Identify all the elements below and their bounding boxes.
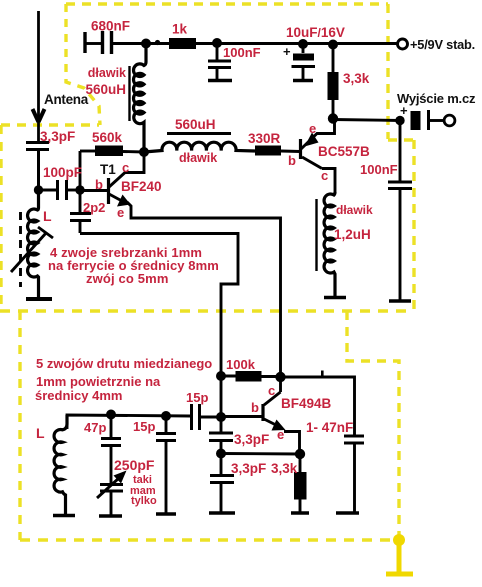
choke 1,2uH [324,192,346,298]
L core dashed line [19,212,22,287]
resistor 330R [255,146,300,156]
wire emitter T1 [127,202,281,376]
svg-text:+5/9V stab.: +5/9V stab. [410,37,475,52]
node divider [216,449,226,459]
resistor 3,3k collector [328,45,339,119]
svg-text:5 zwojów drutu miedzianego: 5 zwojów drutu miedzianego [36,356,212,371]
node tank/base [216,412,226,422]
node collector T1 [139,147,149,157]
svg-text:Wyjście m.cz: Wyjście m.cz [397,91,476,106]
svg-text:3,3k: 3,3k [343,71,370,86]
capacitor 680nF [85,31,146,54]
node output [395,116,404,125]
wire emitter BF494B [284,432,300,455]
svg-text:BF240: BF240 [121,179,162,194]
shield box 2 (antenna coil) top edge [1,123,99,126]
choke 1,2uH core line [315,199,317,271]
capacitor 3,3pF upper [209,433,233,453]
svg-text:b: b [288,153,296,168]
svg-text:c: c [321,168,328,183]
svg-text:b: b [95,177,103,192]
resistor 3,3k emitter [291,454,309,513]
choke 560uH vertical [134,44,146,153]
svg-text:1,2uH: 1,2uH [334,227,371,242]
svg-text:15p: 15p [133,419,155,434]
capacitor 15p vertical [156,416,176,514]
svg-text:100nF: 100nF [223,45,261,60]
node 100k left [216,371,226,381]
capacitor 2p2 [70,190,91,233]
node emitter BC557B [328,113,338,123]
resistor 560k [80,146,144,191]
svg-text:T1: T1 [100,162,116,177]
svg-text:560k: 560k [92,130,123,145]
capacitor 47p [101,415,121,483]
capacitor output electrolytic [411,110,444,130]
wire 2p2 to oscillator [80,234,238,377]
resistor 1k [169,38,196,49]
shield box 1 right edge [388,4,414,310]
T1 emitter arrow [117,195,131,207]
node 10uF [298,39,308,49]
svg-text:10uF/16V: 10uF/16V [286,25,345,40]
svg-text:1mm powietrznie na: 1mm powietrznie na [36,374,161,389]
transistor BC557B [301,119,336,193]
oscillator tank rail [67,415,221,429]
terminal +5/9V [398,39,408,49]
svg-text:1k: 1k [172,22,188,37]
capacitor 100pF [39,180,81,200]
shield box 3 right edge [347,311,399,540]
svg-text:c: c [122,160,129,175]
svg-text:e: e [309,121,316,136]
svg-text:BF494B: BF494B [281,396,332,411]
svg-text:47p: 47p [84,420,106,435]
capacitor 1-47nF [336,436,364,513]
node 3,3k top [328,40,338,50]
input terminal bar [83,32,86,53]
wire divider to emitter [221,452,300,455]
capacitor 100nF decoupling [208,43,232,81]
svg-text:680nF: 680nF [91,19,130,34]
shield box 1 left edge [66,4,100,125]
svg-text:dławik: dławik [179,151,217,165]
svg-text:Antena: Antena [44,92,89,107]
antenna [33,11,45,141]
transistor T1 BF240 [80,152,144,204]
capacitor 10uF/16V electrolytic [292,44,316,81]
shield box 3 bottom edge [20,538,399,541]
svg-text:560uH: 560uH [175,117,216,132]
svg-text:dławik: dławik [336,203,373,217]
choke 560uH core line [128,66,130,121]
svg-text:3,3pF: 3,3pF [231,461,266,476]
wire tank chain [220,376,223,432]
shield ground node [393,534,405,546]
svg-text:e: e [117,205,124,220]
svg-text:L: L [36,425,45,441]
svg-text:e: e [277,427,284,442]
svg-text:330R: 330R [248,131,281,146]
capacitor 100nF output [388,121,412,302]
svg-text:+: + [283,44,291,59]
transistor BF494B [221,377,281,425]
svg-text:3,3k: 3,3k [271,461,298,476]
svg-text:tylko: tylko [131,495,157,507]
node antenna/L [34,185,43,194]
svg-text:średnicy 4mm: średnicy 4mm [35,388,122,403]
capacitor 250pF variable [97,478,123,516]
svg-text:1- 47nF: 1- 47nF [306,420,353,435]
svg-text:15p: 15p [186,390,208,405]
node emitter/3,3k [295,449,305,459]
250pF arrow head [114,471,127,484]
svg-text:L: L [43,208,52,224]
svg-text:100pF: 100pF [43,165,82,180]
node 47p [106,410,116,420]
svg-text:c: c [268,383,275,398]
capacitor 15p horizontal [192,404,200,430]
L adjust arrow [11,227,53,272]
svg-text:250pF: 250pF [114,457,155,473]
choke horizontal core line [167,132,231,135]
svg-text:100k: 100k [226,357,256,372]
capacitor 3,3pF antenna [26,143,49,191]
wire collector to 1-47nF [281,377,355,435]
ground (shield) [386,540,413,574]
shared shield wall [0,309,414,312]
BF494B emitter arrow [272,420,286,431]
svg-text:zwój co 5mm: zwój co 5mm [86,271,169,286]
choke 560uH horizontal [144,142,255,152]
capacitor 3,3pF lower [209,454,235,514]
node collector BF494B [275,372,285,382]
inductor L oscillator [53,415,75,516]
svg-text:3,3pF: 3,3pF [234,432,269,447]
svg-text:BC557B: BC557B [318,144,370,159]
node 100nF [212,38,222,48]
shield box 3 left edge [18,311,21,540]
shield box 1 top edge [66,2,388,5]
shield box 2 left edge [0,125,3,311]
svg-text:560uH: 560uH [85,82,126,97]
wire to output [333,120,400,121]
svg-text:b: b [251,400,259,415]
svg-text:+: + [400,103,408,118]
svg-text:2p2: 2p2 [83,200,105,215]
node choke/rail [141,39,151,49]
svg-text:dławik: dławik [88,66,126,80]
node 15p [161,411,171,421]
svg-text:100nF: 100nF [360,162,398,177]
terminal output m.cz [444,115,455,126]
BC557B emitter arrow [305,133,319,147]
node base T1 [75,185,84,194]
stray tick [321,371,324,377]
wire top rail [146,42,397,45]
resistor 100k [221,371,281,382]
inductor L antenna coil [26,190,52,299]
svg-text:3,3pF: 3,3pF [40,129,75,144]
